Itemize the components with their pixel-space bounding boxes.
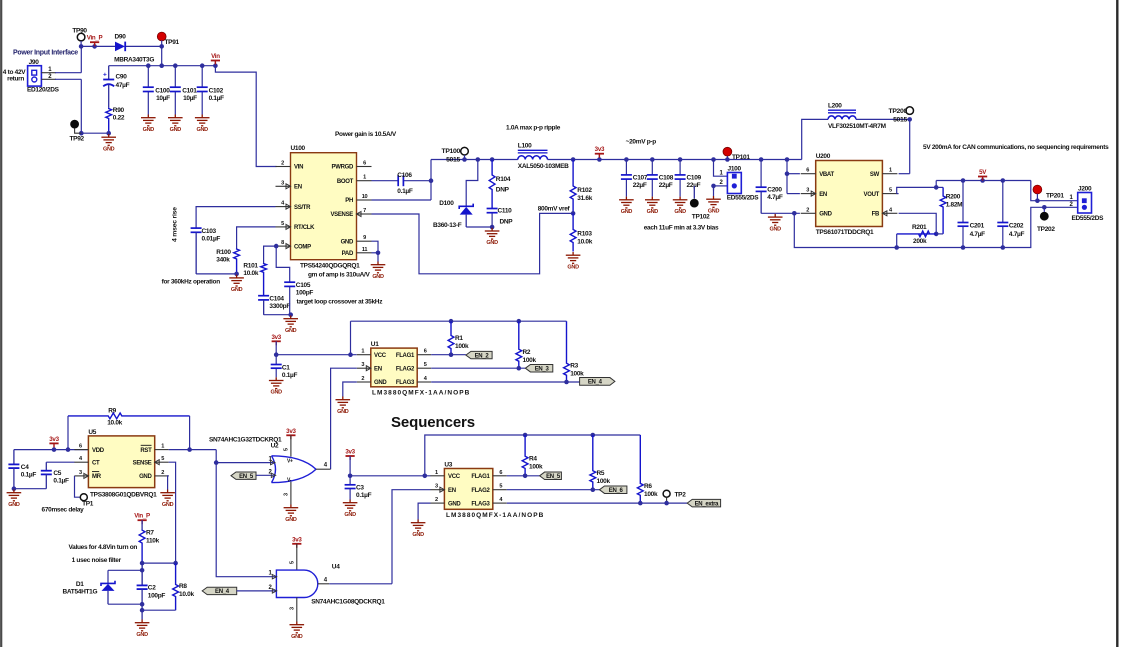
resistor R102 xyxy=(570,160,576,214)
junction J100 pin2 node xyxy=(711,184,716,189)
capacitor C110 (DNP) xyxy=(491,207,493,209)
svg-text:FLAG2: FLAG2 xyxy=(471,488,490,494)
wire COMP to R101 xyxy=(264,246,277,263)
junction C2 gnd rail tap xyxy=(140,608,145,613)
svg-text:C1: C1 xyxy=(282,364,290,371)
resistor R8 xyxy=(173,563,179,610)
wire J90 pin2 to ground rail xyxy=(41,78,56,80)
junction R104 branch xyxy=(490,157,495,162)
sheet border right xyxy=(1116,0,1118,647)
svg-text:FLAG1: FLAG1 xyxy=(471,474,490,480)
svg-text:VCC: VCC xyxy=(448,474,461,480)
svg-text:GND: GND xyxy=(103,146,115,152)
svg-text:SENSE: SENSE xyxy=(133,460,152,466)
svg-text:0.1µF: 0.1µF xyxy=(397,188,413,195)
svg-text:EN_4: EN_4 xyxy=(588,380,603,386)
svg-text:LM3880QMFX-1AA/NOPB: LM3880QMFX-1AA/NOPB xyxy=(446,512,544,519)
svg-text:0.1µF: 0.1µF xyxy=(21,471,37,478)
junction R4 bottom xyxy=(523,474,528,479)
U5 pin 5 SENSE xyxy=(155,461,169,463)
U2 input2 stub xyxy=(256,474,274,476)
wire COMP stub xyxy=(275,245,278,247)
sheet border left xyxy=(0,0,2,647)
resistor R104 (DNP) xyxy=(489,160,495,209)
svg-text:return: return xyxy=(7,76,24,83)
ground below C101 xyxy=(168,115,183,126)
net flag EN_5 U3 xyxy=(540,472,562,480)
svg-text:3: 3 xyxy=(281,180,284,186)
svg-text:DNP: DNP xyxy=(500,219,514,226)
capacitor C201 xyxy=(962,181,964,223)
wire VBAT EN riser xyxy=(786,160,788,194)
junction VCC riser xyxy=(348,352,353,357)
test point TP100 xyxy=(461,147,469,155)
svg-text:C109: C109 xyxy=(687,174,702,181)
junction R7 bottom xyxy=(140,561,145,566)
ground below C102 xyxy=(195,115,210,126)
junction R201 gnd tap xyxy=(894,245,899,250)
U100 pin 11 PAD xyxy=(357,252,372,254)
wire J100 pin2 to ground xyxy=(714,185,728,187)
svg-text:J100: J100 xyxy=(728,166,742,173)
ground below C3 xyxy=(343,500,358,511)
junction C102 tap xyxy=(200,63,205,68)
test point TP202 xyxy=(1040,212,1049,221)
svg-text:U100: U100 xyxy=(291,145,306,152)
wire VOUT to output node xyxy=(897,193,899,195)
svg-text:5: 5 xyxy=(281,221,284,227)
svg-text:9: 9 xyxy=(363,235,366,241)
svg-text:4 msec rise: 4 msec rise xyxy=(172,207,179,242)
wire RT/CLK to R100 xyxy=(237,227,276,249)
ground at U200 xyxy=(768,214,783,225)
svg-text:C103: C103 xyxy=(202,228,217,235)
resistor R200 xyxy=(936,186,943,188)
resistor R2 xyxy=(516,321,522,368)
svg-text:5: 5 xyxy=(289,561,295,564)
or gate U2 xyxy=(272,456,317,483)
connector J200 xyxy=(1078,193,1092,214)
junction TP101 tap xyxy=(725,157,730,162)
power flag 5V xyxy=(980,178,985,183)
svg-text:5V 200mA for CAN communication: 5V 200mA for CAN communications, no sequ… xyxy=(923,144,1109,151)
svg-text:R2: R2 xyxy=(523,349,531,356)
wire L200 to SW/TP200 xyxy=(856,118,910,120)
svg-text:GND: GND xyxy=(285,517,297,523)
ground below R90 xyxy=(101,134,116,145)
junction VOUT node xyxy=(934,185,939,190)
svg-text:J200: J200 xyxy=(1078,186,1092,193)
test point TP1 xyxy=(80,494,87,501)
capacitor C3 xyxy=(349,476,351,485)
svg-text:10.0k: 10.0k xyxy=(107,419,122,426)
junction C100 tap xyxy=(146,63,151,68)
power flag 3v3 at L100 out xyxy=(597,157,602,162)
svg-text:PH: PH xyxy=(345,198,353,204)
svg-text:GND: GND xyxy=(271,390,283,396)
wire RST node xyxy=(169,449,217,451)
svg-text:target loop crossover at 35kHz: target loop crossover at 35kHz xyxy=(297,299,384,306)
capacitor C90 (polarized) xyxy=(108,66,110,80)
svg-text:5: 5 xyxy=(499,484,502,490)
U100 pin 5 RT/CLK xyxy=(276,226,291,228)
U3 pin 4 FLAG3 xyxy=(493,502,507,504)
wire D1 loop top xyxy=(108,569,142,571)
svg-text:100k: 100k xyxy=(523,357,537,364)
svg-text:5V: 5V xyxy=(979,169,987,176)
wire sense node rail xyxy=(142,562,176,564)
svg-text:1: 1 xyxy=(435,470,438,476)
wire U3 pullup riser xyxy=(425,435,641,476)
net flag EN_6 xyxy=(600,486,627,494)
svg-text:1: 1 xyxy=(889,168,892,174)
svg-text:Vin_P: Vin_P xyxy=(87,35,103,42)
ground below U4 xyxy=(290,622,305,633)
svg-text:R5: R5 xyxy=(597,470,605,477)
svg-text:6: 6 xyxy=(363,161,366,167)
svg-text:R9: R9 xyxy=(108,408,116,415)
U1 pin 4 FLAG3 xyxy=(417,381,431,383)
svg-text:ED120/2DS: ED120/2DS xyxy=(27,87,60,94)
svg-text:D90: D90 xyxy=(115,33,127,40)
svg-text:1.0A max p-p ripple: 1.0A max p-p ripple xyxy=(506,124,561,131)
svg-text:Values for 4.8Vin turn on: Values for 4.8Vin turn on xyxy=(69,544,138,551)
resistor R7 xyxy=(141,520,143,529)
svg-text:3v3: 3v3 xyxy=(292,536,302,543)
svg-text:C106: C106 xyxy=(397,172,412,179)
svg-text:670msec delay: 670msec delay xyxy=(42,507,85,514)
wire U1 EN from OR gate xyxy=(331,368,357,469)
svg-text:L200: L200 xyxy=(828,102,842,109)
wire rail up to L200 xyxy=(802,119,828,159)
wire D1 loop bottom xyxy=(108,603,142,605)
ground below C108 xyxy=(645,197,660,208)
power flag 3v3 U5 xyxy=(49,442,58,444)
junction R2 bottom xyxy=(517,366,522,371)
svg-text:10µF: 10µF xyxy=(156,95,170,102)
svg-text:GND: GND xyxy=(770,226,782,232)
svg-text:C5: C5 xyxy=(53,470,61,477)
wire VDD rail xyxy=(14,449,89,451)
junction C1 tap xyxy=(274,352,279,357)
capacitor C200 xyxy=(760,160,762,188)
wire U100 GND to PAD xyxy=(372,241,379,253)
wire main input rail xyxy=(81,45,115,47)
svg-text:10.0k: 10.0k xyxy=(179,591,194,598)
svg-text:GND: GND xyxy=(621,209,633,215)
svg-text:GND: GND xyxy=(567,264,579,270)
svg-text:100pF: 100pF xyxy=(296,290,314,297)
svg-text:C4: C4 xyxy=(21,464,29,471)
svg-text:TP202: TP202 xyxy=(1037,226,1055,233)
svg-text:C108: C108 xyxy=(659,174,674,181)
ground below U3 xyxy=(411,520,426,531)
capacitor C101 xyxy=(174,66,176,88)
U2 ground leg xyxy=(290,482,292,505)
U5 pin 3 MR xyxy=(74,475,88,477)
svg-text:0.1µF: 0.1µF xyxy=(209,95,225,102)
wire MR to TP1 xyxy=(75,476,81,497)
svg-text:B360-13-F: B360-13-F xyxy=(433,222,462,229)
svg-text:D1: D1 xyxy=(76,581,84,588)
svg-text:GND: GND xyxy=(412,532,424,538)
svg-text:TPS54240QDGQRQ1: TPS54240QDGQRQ1 xyxy=(300,262,360,269)
U100 pin 7 VSENSE xyxy=(357,213,372,215)
svg-text:C101: C101 xyxy=(182,87,197,94)
svg-text:VBAT: VBAT xyxy=(819,172,834,178)
wire VCC riser to pullup rail xyxy=(350,321,352,355)
svg-text:Power gain is 10.5A/V: Power gain is 10.5A/V xyxy=(335,131,397,138)
svg-text:5: 5 xyxy=(424,362,427,368)
junction C107 tap xyxy=(624,157,629,162)
svg-text:EN_2: EN_2 xyxy=(475,353,490,359)
svg-text:VSENSE: VSENSE xyxy=(330,212,353,218)
wire output top rail xyxy=(936,180,1031,182)
junction J100 branch xyxy=(711,157,716,162)
U200 pin 2 GND xyxy=(801,212,816,214)
wire U3 EN from AND gate xyxy=(392,490,431,584)
ground below J100 xyxy=(713,186,715,196)
junction C200 tap xyxy=(759,157,764,162)
ground below C100 xyxy=(141,115,156,126)
svg-text:EN_5: EN_5 xyxy=(239,474,254,480)
svg-text:1 usec noise filter: 1 usec noise filter xyxy=(72,557,122,564)
svg-text:FB: FB xyxy=(872,212,880,218)
U5 pin 6 VDD xyxy=(74,449,88,451)
svg-text:2: 2 xyxy=(435,497,438,503)
wire ground rail TP92 xyxy=(81,132,108,134)
U1 pin 6 FLAG1 xyxy=(417,354,431,356)
junction C108 tap xyxy=(650,157,655,162)
svg-text:C100: C100 xyxy=(155,87,170,94)
U1 pin 2 GND xyxy=(357,381,371,383)
ground below D100 C110 xyxy=(485,228,500,239)
junction R9 right tap xyxy=(187,447,192,452)
diode D100 B360 xyxy=(459,204,473,209)
U2 output xyxy=(316,468,331,470)
svg-text:100k: 100k xyxy=(597,478,611,485)
junction COMP node xyxy=(274,244,279,249)
U200 pin 3 EN xyxy=(801,193,816,195)
wire U1 GND to ground xyxy=(343,382,357,397)
ground below C107 xyxy=(619,197,634,208)
junction R5 top xyxy=(591,433,596,438)
svg-text:V+: V+ xyxy=(287,458,293,464)
U100 pin 4 SS/TR xyxy=(276,206,291,208)
svg-text:RT/CLK: RT/CLK xyxy=(294,225,315,231)
junction R100 ground node xyxy=(234,272,239,277)
svg-text:GND: GND xyxy=(285,328,297,334)
svg-text:C90: C90 xyxy=(116,74,128,81)
wire R8 bottom rail xyxy=(142,609,176,611)
svg-text:47µF: 47µF xyxy=(116,82,130,89)
svg-text:R6: R6 xyxy=(644,483,652,490)
svg-text:SW: SW xyxy=(870,172,880,178)
svg-text:4.7µF: 4.7µF xyxy=(767,194,783,201)
IC U200 TPS61071 xyxy=(816,161,883,227)
svg-text:22µF: 22µF xyxy=(659,182,673,189)
capacitor C107 xyxy=(625,160,627,175)
capacitor C108 xyxy=(651,160,653,175)
svg-text:2: 2 xyxy=(361,376,364,382)
ground below C109 xyxy=(673,197,688,208)
svg-text:C105: C105 xyxy=(296,282,311,289)
junction C202 bottom xyxy=(1001,245,1006,250)
svg-text:EN_extra: EN_extra xyxy=(695,501,720,507)
wire C200 bottom to GND pin xyxy=(760,191,762,213)
junction PAD node xyxy=(376,251,381,256)
svg-text:C102: C102 xyxy=(209,87,224,94)
svg-text:5: 5 xyxy=(161,456,164,462)
svg-text:EN_5: EN_5 xyxy=(546,474,561,480)
svg-text:FLAG2: FLAG2 xyxy=(396,366,415,372)
wire VSENSE feedback xyxy=(372,213,574,273)
svg-text:3: 3 xyxy=(435,484,438,490)
svg-text:FLAG3: FLAG3 xyxy=(471,501,490,507)
test point TP201 xyxy=(1033,185,1042,194)
junction C110 ground node xyxy=(490,225,495,230)
IC U1 LM3880 xyxy=(371,348,417,387)
svg-text:4.7µF: 4.7µF xyxy=(1009,231,1025,238)
svg-text:TPS3808G01QDBVRQ1: TPS3808G01QDBVRQ1 xyxy=(90,492,157,499)
power 3v3 U2 xyxy=(286,434,295,436)
wire output ground rail xyxy=(794,207,1077,247)
svg-text:MR: MR xyxy=(92,474,102,480)
inductor L100 xyxy=(518,156,548,160)
svg-text:GND: GND xyxy=(291,634,303,640)
U1 pin 5 FLAG2 xyxy=(417,367,431,369)
wire FLAG1 to EN_5 xyxy=(507,475,540,477)
U5 pin 2 GND xyxy=(155,475,169,477)
svg-text:COMP: COMP xyxy=(294,244,311,250)
svg-text:R102: R102 xyxy=(577,187,592,194)
svg-text:C201: C201 xyxy=(970,223,985,230)
svg-text:800mV vref: 800mV vref xyxy=(538,206,571,213)
svg-text:3v3: 3v3 xyxy=(49,436,59,443)
svg-text:3: 3 xyxy=(806,188,809,194)
junction FB divider node xyxy=(934,232,939,237)
junction at Vin_P tap xyxy=(92,44,97,49)
svg-text:TP92: TP92 xyxy=(70,136,85,143)
resistor R4 xyxy=(522,435,528,476)
svg-text:22µF: 22µF xyxy=(687,182,701,189)
capacitor C100 xyxy=(147,66,149,88)
svg-text:GND: GND xyxy=(674,209,686,215)
svg-text:CT: CT xyxy=(92,460,100,466)
junction feedback node xyxy=(571,211,576,216)
ground below U2 xyxy=(284,505,299,516)
svg-text:VLF302510MT-4R7M: VLF302510MT-4R7M xyxy=(828,123,886,130)
svg-text:MBRA340T3G: MBRA340T3G xyxy=(114,57,154,64)
svg-text:11: 11 xyxy=(362,247,368,253)
junction VBAT riser tap xyxy=(785,157,790,162)
test point TP102 xyxy=(693,186,695,199)
IC U3 LM3880 xyxy=(444,469,492,510)
junction C105 ground node xyxy=(288,312,293,317)
resistor R90 xyxy=(106,108,112,134)
junction R1 bottom xyxy=(449,352,454,357)
svg-text:TP1: TP1 xyxy=(82,500,94,507)
svg-text:GND: GND xyxy=(136,632,148,638)
svg-text:R201: R201 xyxy=(912,224,927,231)
wire COMP to C105 xyxy=(276,246,290,282)
U100 pin 2 VIN xyxy=(276,166,291,168)
svg-text:6: 6 xyxy=(499,470,502,476)
svg-text:EN: EN xyxy=(448,488,456,494)
ground below C1 xyxy=(269,377,284,388)
svg-text:D100: D100 xyxy=(439,200,454,207)
IC U5 TPS3808 xyxy=(88,436,154,488)
svg-text:EN: EN xyxy=(819,192,827,198)
power 3v3 U4 xyxy=(292,543,301,545)
net flag EN_2 xyxy=(466,351,492,358)
U100 pin 10 PH xyxy=(357,199,372,201)
svg-text:1: 1 xyxy=(361,349,364,355)
wire FLAG3 to EN_extra xyxy=(507,502,687,504)
U200 pin 6 VBAT xyxy=(801,173,816,175)
svg-text:GND: GND xyxy=(708,208,720,214)
svg-text:R104: R104 xyxy=(496,176,511,183)
junction TP201 tap xyxy=(1035,198,1040,203)
wire FLAG2 to EN_6 xyxy=(507,489,600,491)
svg-text:R103: R103 xyxy=(577,231,592,238)
svg-text:8: 8 xyxy=(281,240,284,246)
junction U3 riser xyxy=(423,474,428,479)
svg-text:5: 5 xyxy=(284,448,290,451)
U1 pin 1 VCC xyxy=(357,354,371,356)
test point TP90 xyxy=(77,33,85,41)
svg-text:EN: EN xyxy=(294,185,302,191)
capacitor C1 xyxy=(275,355,277,365)
svg-text:ED555/2DS: ED555/2DS xyxy=(1072,215,1105,222)
wire node to C2 xyxy=(141,563,143,585)
wire to OR input1 xyxy=(216,462,273,464)
svg-text:3v3: 3v3 xyxy=(345,449,355,456)
junction D1 bottom tap xyxy=(140,602,145,607)
svg-text:GND: GND xyxy=(170,127,182,133)
svg-text:FLAG1: FLAG1 xyxy=(396,353,415,359)
svg-text:100k: 100k xyxy=(529,464,543,471)
svg-text:R90: R90 xyxy=(113,107,125,114)
U4 output xyxy=(318,583,330,585)
net flag EN_extra xyxy=(687,499,720,507)
svg-text:0.01µF: 0.01µF xyxy=(202,235,221,242)
wire D100 anode to ground node xyxy=(466,226,492,228)
svg-text:2: 2 xyxy=(161,470,164,476)
junction C101 tap xyxy=(173,63,178,68)
wire SENSE riser xyxy=(169,462,176,563)
svg-text:LM3880QMFX-1AA/NOPB: LM3880QMFX-1AA/NOPB xyxy=(372,390,470,397)
and gate U4 xyxy=(276,570,317,597)
junction C202 top xyxy=(1001,178,1006,183)
svg-text:200k: 200k xyxy=(913,238,927,245)
svg-text:5015: 5015 xyxy=(446,156,460,163)
svg-text:31.6k: 31.6k xyxy=(577,195,592,202)
svg-text:6: 6 xyxy=(424,349,427,355)
power flag 3v3 U1 xyxy=(272,340,281,342)
svg-text:10.0k: 10.0k xyxy=(577,239,592,246)
svg-text:VCC: VCC xyxy=(374,353,387,359)
resistor R3 xyxy=(564,321,570,382)
U1 pin 3 EN xyxy=(357,367,371,369)
svg-text:GND: GND xyxy=(8,502,20,508)
svg-text:3300pF: 3300pF xyxy=(269,303,290,310)
svg-text:0.1µF: 0.1µF xyxy=(53,478,69,485)
svg-text:100k: 100k xyxy=(570,371,584,378)
wire switch node riser xyxy=(430,160,432,201)
svg-text:BAT54HT1G: BAT54HT1G xyxy=(63,589,98,596)
junction BOOT tap xyxy=(429,178,434,183)
